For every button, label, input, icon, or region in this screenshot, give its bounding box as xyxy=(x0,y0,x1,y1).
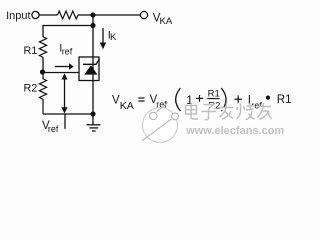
wire ref node to box xyxy=(43,72,80,74)
svg-text:R2: R2 xyxy=(24,82,38,94)
tick below wire xyxy=(64,114,66,129)
wire R1 to ref node xyxy=(42,57,44,72)
node anode bottom xyxy=(90,111,95,116)
node R1 branch xyxy=(90,23,95,28)
current arrow Iref xyxy=(55,63,74,69)
watermark url xyxy=(185,125,285,138)
svg-text:ref: ref xyxy=(48,124,59,134)
formula VKA xyxy=(112,95,134,112)
resistor R1 xyxy=(39,37,46,58)
wire cathode vertical xyxy=(92,15,94,114)
svg-text:KA: KA xyxy=(160,16,173,27)
formula open paren xyxy=(176,88,181,111)
label IK xyxy=(108,29,117,43)
formula plus Iref xyxy=(235,95,263,111)
wire input to resistor xyxy=(39,14,57,16)
label Iref xyxy=(59,43,72,57)
svg-text:R1: R1 xyxy=(208,89,220,100)
label VKA xyxy=(153,13,173,27)
measure arrow Vref up xyxy=(61,73,67,113)
svg-text:Input: Input xyxy=(6,10,30,22)
formula Vref xyxy=(150,94,168,110)
formula close paren xyxy=(221,88,226,111)
wire bottom xyxy=(43,113,93,115)
TL431 zener cathode bar xyxy=(83,59,100,65)
watermark logo disc xyxy=(142,102,178,142)
svg-text:KA: KA xyxy=(120,100,134,112)
label Vref xyxy=(42,120,59,134)
wire branch to R1 xyxy=(43,26,93,38)
formula fraction R1 over R2 xyxy=(207,89,220,112)
terminal Input xyxy=(32,11,39,18)
TL431 anode triangle xyxy=(84,65,97,74)
op-amp U1 TL431 box xyxy=(79,57,99,81)
current arrow IK xyxy=(100,28,106,49)
terminal VKA xyxy=(140,11,147,18)
ground xyxy=(87,114,101,131)
svg-text:R1: R1 xyxy=(24,45,38,57)
node ref xyxy=(40,69,45,74)
resistor series (top) xyxy=(58,11,79,19)
wire resistor to VKA terminal xyxy=(78,14,140,16)
node cathode top xyxy=(90,12,95,17)
formula bullet R1 xyxy=(266,94,292,106)
resistor R2 xyxy=(39,72,46,114)
formula 1 plus xyxy=(186,93,203,107)
watermark chinese glyphs xyxy=(186,103,274,121)
formula equals xyxy=(138,98,144,101)
svg-text:K: K xyxy=(110,32,117,43)
svg-text:ref: ref xyxy=(62,47,73,57)
svg-text:V: V xyxy=(112,95,120,107)
svg-text:www.elecfans.com: www.elecfans.com xyxy=(185,125,284,137)
svg-text:R1: R1 xyxy=(277,94,292,106)
